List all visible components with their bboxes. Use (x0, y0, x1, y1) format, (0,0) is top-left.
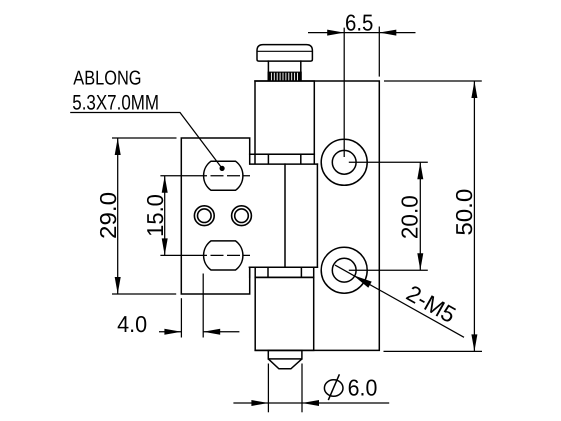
svg-text:ABLONG: ABLONG (73, 67, 141, 89)
svg-text:6.0: 6.0 (348, 375, 378, 401)
svg-text:15.0: 15.0 (142, 194, 168, 237)
svg-text:20.0: 20.0 (397, 195, 423, 239)
svg-text:4.0: 4.0 (117, 311, 147, 337)
svg-text:5.3X7.0MM: 5.3X7.0MM (72, 92, 159, 115)
svg-text:50.0: 50.0 (451, 189, 477, 236)
svg-text:6.5: 6.5 (345, 9, 373, 35)
svg-text:29.0: 29.0 (95, 192, 121, 239)
